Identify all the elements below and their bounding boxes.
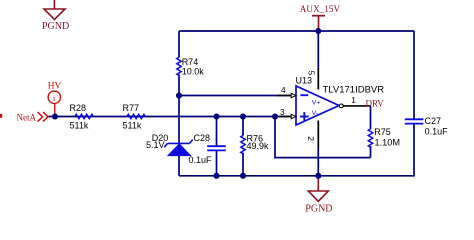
- svg-text:511k: 511k: [70, 121, 89, 131]
- junction R76 bottom: [240, 173, 246, 179]
- svg-text:C27: C27: [425, 116, 442, 126]
- svg-text:49.9k: 49.9k: [247, 141, 270, 151]
- svg-text:0.1uF: 0.1uF: [425, 126, 449, 136]
- svg-text:TLV171IDBVR: TLV171IDBVR: [323, 84, 385, 95]
- svg-text:10.0k: 10.0k: [182, 66, 205, 76]
- junction pin2/PGND: [315, 173, 321, 179]
- pin 4 stub: [277, 95, 291, 97]
- resistor R76: [241, 136, 245, 154]
- svg-text:NetA: NetA: [17, 113, 37, 123]
- svg-text:R28: R28: [70, 103, 87, 113]
- diode D20 (zener 5.1V): [164, 140, 192, 156]
- resistor R74: [177, 57, 181, 75]
- svg-text:HV: HV: [48, 82, 62, 92]
- capacitor C28: [207, 146, 226, 150]
- svg-text:4: 4: [281, 85, 286, 95]
- svg-text:V-: V-: [312, 110, 318, 117]
- svg-text:1: 1: [351, 95, 356, 105]
- svg-text:2: 2: [306, 136, 316, 141]
- svg-text:AUX_15V: AUX_15V: [300, 4, 341, 14]
- svg-text:PGND: PGND: [42, 21, 69, 32]
- junction R76 top: [240, 113, 246, 119]
- ground PGND (top left): [44, 0, 65, 20]
- port stub (left edge cut): [0, 114, 2, 118]
- svg-text:DRV: DRV: [366, 98, 385, 108]
- wire feedback (pin3 node to R75 bottom): [275, 117, 371, 158]
- wire R76 vertical: [242, 117, 244, 176]
- svg-text:1.10M: 1.10M: [375, 138, 401, 148]
- junction C28 top: [213, 113, 219, 119]
- wire main horizontal (NetA to pin3): [49, 116, 297, 118]
- op-amp U13: [296, 86, 339, 125]
- junction NetA/HV: [52, 113, 58, 119]
- wire right vertical (to C27 top): [413, 31, 415, 119]
- svg-text:511k: 511k: [123, 121, 142, 131]
- resistor R28: [75, 114, 93, 118]
- probe HV: [48, 91, 60, 114]
- op-amp minus sign: [300, 94, 308, 96]
- capacitor C27: [405, 119, 424, 123]
- wire C28 vertical: [216, 117, 218, 176]
- svg-text:C28: C28: [194, 133, 211, 143]
- svg-text:PGND: PGND: [305, 203, 332, 214]
- wire right vertical (C27 bottom to rail): [413, 124, 415, 176]
- svg-text:5: 5: [306, 71, 316, 76]
- svg-text:3: 3: [280, 107, 285, 117]
- pin 2 stub (V-): [317, 121, 319, 176]
- ground PGND (bottom): [308, 176, 328, 202]
- resistor R77: [127, 114, 145, 118]
- wire bottom rail: [179, 175, 415, 177]
- svg-text:V+: V+: [312, 100, 321, 107]
- pin 1 output stub: [343, 105, 370, 107]
- junction AUX_15V rail: [315, 28, 321, 34]
- wire top rail: [179, 30, 414, 32]
- svg-text:U13: U13: [296, 75, 313, 85]
- junction feedback tap: [272, 113, 278, 119]
- junction C28 bottom: [213, 173, 219, 179]
- power port AUX_15V: [312, 16, 325, 31]
- wire pin4 branch: [179, 95, 296, 97]
- pin 3 stub: [277, 116, 291, 118]
- svg-text:5.1V: 5.1V: [146, 140, 165, 150]
- resistor R75: [368, 129, 372, 147]
- pin 5 stub (V+): [317, 31, 319, 90]
- svg-text:0.1uF: 0.1uF: [189, 155, 213, 165]
- svg-text:R75: R75: [374, 127, 391, 137]
- wire R74/D20 vertical: [178, 31, 180, 176]
- svg-text:R77: R77: [123, 103, 140, 113]
- junction R74/D20/pin4: [176, 92, 182, 98]
- port NetA arrow: [38, 112, 49, 122]
- op-amp plus sign: [300, 112, 309, 121]
